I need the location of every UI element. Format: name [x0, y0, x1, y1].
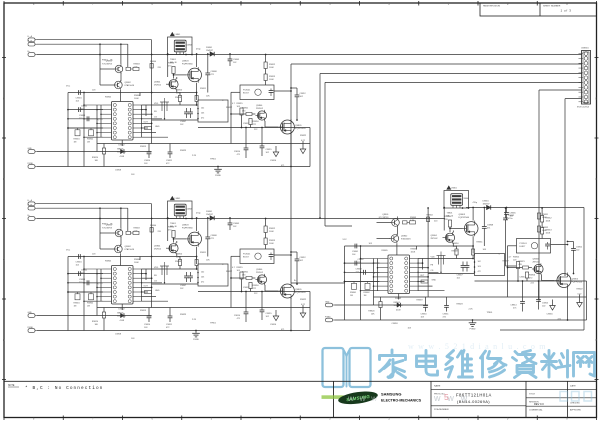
svg-text:LL_A: LL_A: [28, 35, 33, 38]
svg-text:RS802: RS802: [87, 303, 94, 305]
svg-text:CS805: CS805: [233, 223, 240, 225]
svg-text:RS804: RS804: [427, 215, 434, 217]
svg-text:QS802: QS802: [401, 236, 408, 238]
svg-text:RS805: RS805: [105, 261, 112, 263]
svg-text:CS815: CS815: [542, 303, 549, 305]
svg-text:5: 5: [444, 392, 449, 402]
svg-text:DS801: DS801: [483, 201, 490, 203]
svg-text:NAME: NAME: [434, 384, 441, 387]
svg-text:LL_B: LL_B: [28, 41, 33, 43]
svg-text:CS816: CS816: [270, 324, 277, 326]
svg-text:EL817: EL817: [243, 92, 250, 94]
svg-text:CS806: CS806: [186, 45, 193, 47]
svg-text:SG6841D: SG6841D: [117, 315, 127, 317]
svg-text:CS814: CS814: [234, 315, 241, 317]
svg-text:QS805: QS805: [572, 279, 579, 281]
svg-text:RS801: RS801: [74, 139, 81, 141]
svg-text:CS803: CS803: [356, 269, 363, 271]
svg-text:QS806: QS806: [533, 259, 540, 261]
svg-text:RS808: RS808: [175, 97, 182, 99]
svg-text:1M: 1M: [74, 305, 77, 307]
svg-text:RS819: RS819: [140, 310, 147, 312]
svg-text:KTC3875S: KTC3875S: [102, 63, 112, 65]
svg-text:RS815: RS815: [513, 257, 520, 259]
svg-text:TP801: TP801: [210, 323, 217, 325]
svg-text:102: 102: [201, 272, 204, 274]
svg-text:1M: 1M: [87, 141, 90, 143]
svg-text:PGND: PGND: [215, 175, 221, 177]
svg-text:PGND: PGND: [325, 316, 331, 318]
svg-text:LL_A: LL_A: [28, 199, 33, 202]
svg-text:QS801: QS801: [382, 214, 389, 216]
svg-text:GND: GND: [28, 148, 33, 150]
svg-text:BN39-00285A: BN39-00285A: [577, 106, 590, 109]
svg-text:RS801: RS801: [74, 303, 81, 305]
svg-text:RS822: RS822: [300, 299, 307, 301]
svg-text:1N4937: 1N4937: [483, 203, 491, 205]
svg-text:RS811: RS811: [200, 88, 207, 90]
svg-text:RS814: RS814: [168, 227, 175, 229]
svg-text:4.7K: 4.7K: [134, 66, 139, 68]
svg-text:CS802: CS802: [81, 270, 88, 272]
svg-text:RS813: RS813: [546, 230, 553, 232]
svg-text:CS811: CS811: [443, 314, 450, 316]
svg-text:CS807: CS807: [180, 285, 187, 287]
svg-text:RS816: RS816: [253, 121, 260, 123]
svg-text:CS812: CS812: [576, 247, 583, 249]
svg-text:IS8501: IS8501: [117, 313, 124, 315]
svg-text:PGND: PGND: [193, 339, 199, 341]
svg-text:w w w . 5 2 1 d i a n l u . c: w w w . 5 2 1 d i a n l u . c o m: [408, 342, 547, 351]
svg-text:COMMERCIAL: COMMERCIAL: [529, 409, 543, 412]
svg-text:RS812: RS812: [269, 64, 276, 66]
svg-text:POA NUMBER: POA NUMBER: [434, 408, 449, 411]
svg-text:RS808: RS808: [452, 251, 459, 253]
svg-text:2N7002: 2N7002: [154, 84, 162, 86]
svg-text:CS802: CS802: [358, 259, 365, 261]
svg-text:1M: 1M: [350, 295, 353, 297]
svg-text:SG6841D: SG6841D: [117, 151, 127, 153]
svg-text:RS802: RS802: [87, 139, 94, 141]
svg-text:TP801: TP801: [487, 312, 494, 314]
svg-text:CS818: CS818: [115, 170, 122, 172]
svg-text:RS804: RS804: [150, 225, 157, 227]
svg-text:100K: 100K: [134, 98, 139, 100]
svg-text:CS808: CS808: [211, 235, 218, 237]
svg-text:RS804: RS804: [150, 61, 157, 63]
svg-text:QS803: QS803: [459, 214, 466, 216]
svg-text:QS804: QS804: [154, 82, 161, 84]
svg-text:103: 103: [478, 266, 481, 268]
svg-text:CS803: CS803: [79, 279, 86, 281]
svg-text:102: 102: [201, 108, 204, 110]
svg-text:KTC3875S: KTC3875S: [102, 227, 112, 229]
svg-text:RS803: RS803: [134, 64, 141, 66]
svg-text:2N7002: 2N7002: [431, 238, 439, 240]
svg-text:CS813: CS813: [520, 277, 527, 279]
svg-text:TS801: TS801: [170, 223, 177, 225]
svg-text:LS801: LS801: [175, 198, 182, 200]
svg-text:2N7002: 2N7002: [154, 248, 162, 250]
svg-text:100K: 100K: [269, 231, 274, 233]
svg-text:CS811: CS811: [166, 160, 173, 162]
svg-text:LS801: LS801: [175, 34, 182, 36]
svg-text:QS804: QS804: [154, 246, 161, 248]
svg-text:CS803: CS803: [79, 115, 86, 117]
svg-text:100K: 100K: [269, 67, 274, 69]
svg-text:APPROVED: APPROVED: [570, 409, 582, 412]
svg-text:QS805: QS805: [295, 289, 302, 291]
svg-text:1N4937: 1N4937: [206, 214, 214, 216]
svg-text:RS820: RS820: [92, 321, 99, 323]
svg-text:RS813: RS813: [269, 240, 276, 242]
svg-text:VCC: VCC: [66, 86, 71, 88]
svg-text:RS815: RS815: [237, 267, 244, 269]
svg-text:CS808: CS808: [487, 225, 494, 227]
svg-text:FQPF2N60: FQPF2N60: [459, 217, 470, 219]
svg-text:QS806: QS806: [256, 269, 263, 271]
svg-text:EL817: EL817: [520, 246, 527, 248]
svg-text:ELECTRO-MECHANICS: ELECTRO-MECHANICS: [381, 399, 422, 403]
svg-text:VCC: VCC: [66, 250, 71, 252]
svg-text:KTA1504S: KTA1504S: [125, 248, 135, 251]
svg-text:RS811: RS811: [200, 252, 207, 254]
svg-text:RS822: RS822: [300, 135, 307, 137]
svg-text:CS810: CS810: [144, 324, 151, 326]
svg-text:FQPF5N20: FQPF5N20: [295, 128, 306, 130]
svg-text:100K: 100K: [546, 220, 551, 222]
svg-text:RS816: RS816: [529, 275, 536, 277]
svg-text:DATE: DATE: [570, 384, 576, 387]
svg-text:VCC: VCC: [343, 239, 348, 241]
svg-text:CS812: CS812: [300, 257, 307, 259]
svg-text:RS821: RS821: [242, 108, 249, 110]
svg-text:CS806: CS806: [186, 209, 193, 211]
svg-text:PGND: PGND: [28, 327, 34, 329]
svg-text:RS803: RS803: [410, 217, 417, 219]
svg-text:CS805: CS805: [510, 213, 517, 215]
svg-text:QS802: QS802: [125, 82, 132, 84]
svg-text:RS812: RS812: [546, 218, 553, 220]
svg-text:SAMSUNG: SAMSUNG: [381, 392, 401, 397]
svg-text:IS8501: IS8501: [117, 149, 124, 151]
svg-text:CS801: CS801: [76, 262, 83, 264]
svg-text:CS813: CS813: [243, 123, 250, 125]
svg-text:RS803: RS803: [134, 228, 141, 230]
svg-text:CS816: CS816: [547, 314, 554, 316]
svg-text:TS801: TS801: [447, 213, 454, 215]
svg-text:CS814: CS814: [234, 151, 241, 153]
svg-text:RS816: RS816: [253, 285, 260, 287]
svg-text:RS823: RS823: [180, 150, 187, 152]
svg-text:2N7002: 2N7002: [256, 108, 264, 110]
svg-text:RS821: RS821: [519, 261, 526, 263]
svg-text:NOTE: NOTE: [8, 385, 15, 387]
svg-text:TITLE: TITLE: [529, 394, 535, 396]
svg-text:TP801: TP801: [210, 159, 217, 161]
svg-text:FQPF2N60: FQPF2N60: [182, 227, 193, 229]
svg-text:CS818: CS818: [392, 323, 399, 325]
svg-text:RS805: RS805: [382, 250, 389, 252]
svg-text:100K: 100K: [134, 262, 139, 264]
svg-text:GND: GND: [432, 280, 437, 282]
svg-text:4.7K: 4.7K: [410, 220, 415, 222]
svg-text:DS801: DS801: [206, 211, 213, 213]
svg-text:2.2K: 2.2K: [192, 155, 197, 157]
svg-text:CS802: CS802: [81, 106, 88, 108]
svg-text:CS818: CS818: [115, 334, 122, 336]
svg-text:100K: 100K: [546, 232, 551, 234]
svg-text:RS823: RS823: [457, 304, 464, 306]
svg-text:1N4937: 1N4937: [206, 50, 214, 52]
svg-text:RS805: RS805: [105, 97, 112, 99]
svg-text:QS803: QS803: [182, 61, 189, 63]
svg-text:CS805: CS805: [233, 59, 240, 61]
svg-text:102: 102: [478, 261, 481, 263]
svg-text:RS801: RS801: [350, 292, 357, 294]
svg-text:1M: 1M: [74, 141, 77, 143]
svg-text:FQPF2N60: FQPF2N60: [182, 63, 193, 65]
svg-text:CS807: CS807: [180, 121, 187, 123]
svg-text:RS823: RS823: [180, 314, 187, 316]
svg-text:2N7002: 2N7002: [533, 261, 541, 263]
svg-text:1M: 1M: [87, 305, 90, 307]
svg-text:QS801: QS801: [106, 61, 113, 63]
svg-text:RS820: RS820: [368, 311, 375, 313]
svg-text:GND: GND: [155, 290, 160, 292]
svg-text:RS822: RS822: [577, 289, 584, 291]
svg-text:FQPF5N20: FQPF5N20: [572, 281, 583, 283]
svg-text:RS819: RS819: [417, 300, 424, 302]
svg-text:w w w: w w w: [433, 393, 470, 403]
svg-text:103: 103: [201, 113, 204, 115]
svg-text:SG6841D: SG6841D: [394, 305, 404, 307]
svg-text:RS812: RS812: [269, 228, 276, 230]
svg-text:VDD: VDD: [431, 257, 436, 259]
svg-text:RS814: RS814: [168, 63, 175, 65]
svg-text:470u: 470u: [508, 218, 512, 220]
svg-text:RS811: RS811: [477, 242, 484, 244]
svg-text:CS812: CS812: [300, 93, 307, 95]
svg-text:RS821: RS821: [242, 272, 249, 274]
svg-text:QS802: QS802: [125, 246, 132, 248]
svg-text:100K: 100K: [269, 243, 274, 245]
svg-text:QS806: QS806: [256, 105, 263, 107]
svg-text:CS814: CS814: [510, 305, 517, 307]
svg-text:RS813: RS813: [269, 76, 276, 78]
svg-text:CS813: CS813: [243, 287, 250, 289]
svg-text:QS804: QS804: [431, 235, 438, 237]
svg-text:GND: GND: [325, 301, 330, 303]
svg-text:LL_B: LL_B: [28, 205, 33, 207]
svg-text:CS815: CS815: [266, 313, 273, 315]
svg-text:w w w: w w w: [347, 394, 379, 403]
svg-text:2N7002: 2N7002: [256, 272, 264, 274]
svg-text:4.7K: 4.7K: [134, 230, 139, 232]
svg-text:LS801: LS801: [451, 188, 458, 190]
svg-text:2.2K: 2.2K: [469, 309, 474, 311]
svg-text:CS810: CS810: [421, 314, 428, 316]
svg-text:1M: 1M: [364, 295, 367, 297]
svg-text:RS817: RS817: [226, 271, 233, 273]
svg-text:VDD: VDD: [154, 103, 159, 105]
svg-text:TS801: TS801: [170, 59, 177, 61]
svg-text:QS805: QS805: [295, 125, 302, 127]
svg-text:PC8101: PC8101: [243, 90, 251, 92]
svg-text:KTC3875S: KTC3875S: [379, 217, 389, 219]
svg-text:1 of 3: 1 of 3: [560, 9, 571, 13]
svg-text:RS808: RS808: [175, 261, 182, 263]
svg-text:CS811: CS811: [166, 324, 173, 326]
svg-text:PAGE REVISION: PAGE REVISION: [483, 5, 500, 8]
svg-text:RS802: RS802: [364, 292, 371, 294]
svg-text:CHECKED: CHECKED: [570, 403, 580, 405]
svg-text:PC8101: PC8101: [243, 254, 251, 256]
svg-text:2.2K: 2.2K: [192, 319, 197, 321]
svg-text:472: 472: [201, 118, 204, 120]
svg-text:FQPF5N20: FQPF5N20: [295, 292, 306, 294]
svg-text:RS819: RS819: [140, 146, 147, 148]
svg-text:CS801: CS801: [352, 251, 359, 253]
svg-text:103: 103: [201, 277, 204, 279]
svg-text:PC8101: PC8101: [520, 243, 528, 245]
svg-text:RS814: RS814: [445, 216, 452, 218]
svg-text:SHEET NUMBER: SHEET NUMBER: [543, 6, 561, 8]
svg-text:IS8501: IS8501: [394, 302, 401, 304]
svg-text:VDD: VDD: [154, 267, 159, 269]
svg-text:100K: 100K: [411, 251, 416, 253]
svg-text:REV 0.0: REV 0.0: [534, 402, 544, 406]
svg-text:CS807: CS807: [457, 275, 464, 277]
svg-text:DS801: DS801: [206, 47, 213, 49]
svg-text:472: 472: [201, 282, 204, 284]
svg-text:CS801: CS801: [76, 98, 83, 100]
svg-text:RS817: RS817: [226, 107, 233, 109]
svg-text:CNS801: CNS801: [581, 48, 589, 50]
svg-text:QS801: QS801: [106, 225, 113, 227]
svg-text:CS808: CS808: [211, 71, 218, 73]
svg-text:CS815: CS815: [266, 149, 273, 151]
svg-text:KTA1504S: KTA1504S: [125, 84, 135, 87]
svg-text:100K: 100K: [269, 79, 274, 81]
svg-text:KTA1504S: KTA1504S: [401, 237, 411, 240]
svg-text:CS806: CS806: [463, 198, 470, 200]
svg-text:GND: GND: [155, 126, 160, 128]
svg-text:QS803: QS803: [182, 225, 189, 227]
svg-text:RS817: RS817: [503, 261, 510, 263]
svg-text:EL817: EL817: [243, 256, 250, 258]
svg-text:CS810: CS810: [144, 160, 151, 162]
svg-text:GND: GND: [28, 312, 33, 314]
svg-text:PGND: PGND: [28, 163, 34, 165]
svg-text:PGND: PGND: [470, 328, 476, 330]
svg-text:RS815: RS815: [237, 103, 244, 105]
svg-text:* B,C : No Connection: * B,C : No Connection: [25, 386, 103, 391]
svg-text:CS816: CS816: [270, 160, 277, 162]
svg-text:RS820: RS820: [92, 157, 99, 159]
svg-text:472: 472: [478, 271, 481, 273]
